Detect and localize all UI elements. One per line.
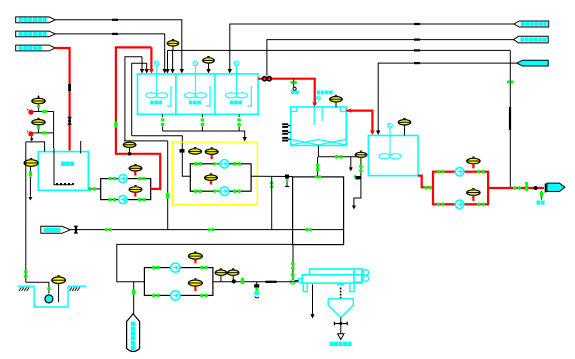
- instrument pair loop2: [189, 149, 202, 154]
- dosing set B outlet arrow: [31, 136, 33, 138]
- sampling tap on red pipe: [293, 79, 295, 88]
- red pipe clarifier to tank T2: [346, 111, 372, 132]
- clarifier launder left: [292, 108, 297, 112]
- pump station boundary: [173, 142, 258, 205]
- pump loop3 pipe: [144, 268, 213, 296]
- agitator A2 in tank T1: [193, 61, 198, 66]
- sludge instrument: [355, 152, 367, 157]
- sump discharge instrument: [52, 277, 66, 284]
- buffer tank inlet stub: [80, 141, 82, 154]
- decanter centrifuge body: [302, 275, 362, 283]
- sump ground line: [18, 285, 35, 287]
- buffer tank: [38, 152, 88, 191]
- dosing set A instrument: [32, 98, 45, 103]
- dosing collect line: [26, 142, 45, 152]
- instrument pair on header: [215, 270, 226, 275]
- wire NaClO dosing to tank2: [378, 63, 517, 132]
- buffer tank label: [61, 161, 65, 166]
- instrument on clarifier: [330, 97, 343, 102]
- valve P7 suction: [152, 266, 155, 270]
- clarifier side taps: [288, 125, 291, 127]
- dosing set B check valve: [28, 131, 33, 136]
- wire dosing drops into tank1: [167, 50, 169, 69]
- sludge pump line: [360, 157, 362, 176]
- valve tick on acid pipe: [68, 84, 71, 91]
- buffer tank left instrument: [24, 160, 38, 167]
- valve P8 discharge: [200, 294, 203, 298]
- inlet flag circulating water: [16, 17, 56, 23]
- screw pump tank: [127, 314, 140, 352]
- tiny pump label: [356, 176, 361, 179]
- clarifier tank: [291, 107, 347, 145]
- valve P1 discharge: [138, 177, 141, 181]
- valve P1 suction: [108, 177, 111, 181]
- agitator A1 in tank T1: [154, 61, 159, 66]
- valve P3 discharge: [233, 162, 236, 166]
- red pipe tank T1 to clarifier: [258, 79, 315, 104]
- drain stub with valve: [256, 282, 258, 285]
- valve on dosing header: [507, 80, 510, 83]
- valve P5 suction: [437, 170, 440, 174]
- inlet flag NaOH solution: [16, 31, 56, 37]
- loop3 feed line: [117, 244, 294, 281]
- valve on outfall: [513, 186, 516, 190]
- instrument P4: [205, 175, 218, 180]
- dosing set B valve: [42, 131, 47, 134]
- clarifier underflow pipe: [317, 145, 319, 156]
- filtrate drain: [312, 284, 314, 314]
- decanter solids outlet: [337, 283, 344, 285]
- green valve on header: [241, 278, 244, 284]
- inlet flag waste acid: [16, 45, 56, 51]
- black dot on header: [232, 279, 236, 283]
- outfall flag: [547, 183, 565, 191]
- valve on red riser: [114, 122, 117, 128]
- sludge drain stub 1: [350, 157, 352, 168]
- sump pit walls: [34, 286, 68, 307]
- sludge hopper: [328, 299, 353, 318]
- clarifier label: [317, 91, 321, 95]
- instrument on tank T2: [398, 120, 411, 125]
- sludge drain stub 2: [354, 177, 361, 206]
- valves on pit outlet: [291, 262, 295, 265]
- wire instrument to accident line: [124, 140, 168, 142]
- instrument line V2: [132, 63, 147, 136]
- sump inlet pipe: [26, 282, 49, 293]
- black dot junction outfall: [534, 186, 538, 190]
- sludge disposal label: [330, 342, 334, 346]
- strainer P4: [214, 189, 219, 193]
- valve on acid pipe: [67, 117, 71, 125]
- outfall drain branch: [541, 191, 543, 200]
- clarifier launder right: [340, 108, 345, 112]
- wire PAM dosing to red pipe: [267, 40, 514, 76]
- red outfall pipe: [488, 187, 544, 189]
- pump loop1 pipe: [101, 179, 151, 200]
- tank T1 reaction basin: [138, 74, 259, 114]
- discharge header loop2: [251, 175, 293, 177]
- pump loop2 pipe: [190, 164, 251, 191]
- drain header tank T1: [163, 131, 245, 138]
- wire flag2 to tank1: [55, 34, 164, 70]
- dosing flag Fe2(SO4)3: [514, 21, 549, 27]
- hopper discharge arrow: [340, 324, 342, 334]
- valve 2 on accident line: [208, 228, 211, 231]
- wire flag1 to tank1: [55, 20, 182, 70]
- ground hatch left: [19, 287, 21, 291]
- discharge pump loop pipe: [433, 172, 488, 205]
- decanter gear circles: [363, 270, 369, 276]
- inlet valve discharge loop: [424, 186, 427, 190]
- solids falling dots: [340, 288, 342, 290]
- valve P7 discharge: [200, 266, 203, 270]
- pump P6: [455, 200, 464, 209]
- ground hatch right: [70, 287, 72, 291]
- flow ticks on header: [265, 281, 271, 283]
- agitator tank T2: [388, 123, 393, 128]
- valve on accident drop: [166, 193, 169, 199]
- valve P2 suction: [108, 198, 111, 202]
- hopper outlet pipe: [340, 318, 342, 324]
- dosing set A valve: [42, 110, 47, 113]
- wire NaClO dosing upper branch: [168, 49, 511, 51]
- valve P4 discharge: [233, 189, 236, 193]
- clarifier scraper truss: [292, 140, 346, 145]
- valve with stem on header: [285, 175, 289, 179]
- instrument P2: [129, 187, 142, 192]
- valve P4 suction: [194, 189, 197, 193]
- decanter inlet nose: [299, 279, 303, 283]
- pump P7: [171, 263, 180, 272]
- dosing pipe A down: [53, 112, 55, 149]
- red pipe loop1 to tank T1: [116, 47, 160, 189]
- junction circle: [291, 280, 295, 284]
- wire to loop2 inlet: [132, 136, 191, 177]
- sump pump: [45, 295, 53, 303]
- drain valve V2 tank T1: [201, 114, 203, 117]
- underflow drop to sludge pit: [317, 157, 319, 177]
- valve P6 discharge: [477, 203, 480, 207]
- pit outlet pipe: [292, 245, 294, 280]
- red feed arrow into tank T1: [150, 47, 152, 70]
- tank T1 divider 2: [214, 74, 216, 114]
- drop from header to accident line: [271, 177, 273, 230]
- hopper outlet valve: [334, 323, 347, 325]
- wire dosing header down to outfall: [168, 49, 511, 51]
- flange ticks at outfall flag: [545, 184, 547, 193]
- decanter gear box: [354, 269, 362, 282]
- green valve on outfall: [525, 182, 528, 185]
- strainer P3: [214, 162, 219, 166]
- tank T1 divider 1: [175, 74, 177, 114]
- valve P6 suction: [437, 203, 440, 207]
- dosing set B stem valve: [38, 125, 40, 133]
- buffer tank left valve: [29, 166, 31, 171]
- dosing set A stem valve: [38, 104, 40, 112]
- small black valve loop2 inlet: [180, 149, 185, 153]
- pipe to emergency sump: [25, 142, 27, 282]
- pump P2: [119, 196, 127, 204]
- pump P3: [220, 160, 229, 169]
- instrument level gauge comp2: [203, 58, 215, 63]
- decanter leg left: [303, 283, 307, 292]
- valves on accident line: [105, 228, 108, 231]
- polymer branch to screw tank: [133, 282, 135, 316]
- valve above sump pump: [47, 287, 50, 290]
- valve P2 discharge: [138, 198, 141, 202]
- sludge feed header: [213, 281, 299, 283]
- instrument FI on dosing line: [167, 41, 179, 46]
- valve P8 suction: [152, 294, 155, 298]
- dosing set B instrument: [32, 120, 45, 125]
- drain valve V3 tank T1: [238, 114, 240, 117]
- valve P5 discharge: [477, 170, 480, 174]
- instrument P7: [188, 253, 202, 259]
- valve on underflow header: [335, 155, 338, 159]
- accident water line: [70, 229, 292, 231]
- pump P4: [220, 187, 229, 196]
- dosing flag PAM: [514, 36, 549, 43]
- dosing set A check valve: [28, 110, 33, 115]
- red pipe waste acid to buffer tank: [55, 48, 69, 151]
- valve on pit divider: [305, 228, 308, 231]
- decanter leg right: [350, 283, 354, 292]
- instrument P8: [188, 280, 202, 286]
- accident water flag: [41, 226, 71, 233]
- instrument P6: [467, 190, 480, 196]
- tank T2 dosing basin: [368, 136, 418, 176]
- red pipe tank T2 to discharge pumps: [418, 176, 433, 188]
- pump P5: [455, 167, 464, 176]
- clarifier center feedwell: [313, 107, 315, 125]
- instrument P5: [467, 158, 480, 164]
- flow instrument on red pipe: [128, 152, 132, 156]
- buffer tank outlet valve: [88, 188, 100, 190]
- agitator A3 in tank T1: [234, 61, 239, 66]
- drain valve V1 tank T1: [162, 114, 164, 117]
- decanter upper bowl: [310, 269, 354, 275]
- sludge pit divider: [293, 229, 344, 231]
- buffer tank dip pipe: [54, 148, 73, 185]
- valve at accident flag: [74, 226, 78, 234]
- sludge pit box: [293, 177, 344, 245]
- valve pair on vertical drop: [270, 181, 273, 184]
- valve on red pipe: [263, 77, 267, 81]
- wire Fe2(SO4)3 dosing to tank1: [230, 24, 514, 70]
- instrument P1: [129, 166, 142, 171]
- dosing flag NaClO: [517, 60, 548, 66]
- instrument line V1: [125, 57, 142, 141]
- pump P8: [171, 291, 180, 300]
- valve on pit top: [315, 175, 318, 178]
- pump P1: [119, 175, 127, 183]
- valve P3 suction: [194, 162, 197, 166]
